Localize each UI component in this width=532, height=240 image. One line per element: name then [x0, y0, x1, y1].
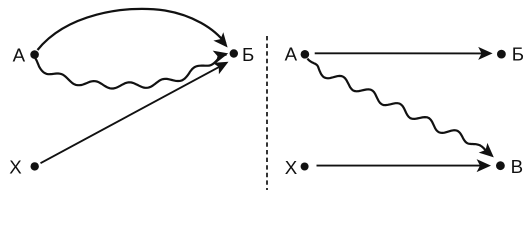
svg-text:Б: Б [512, 43, 524, 64]
svg-text:Б: Б [242, 44, 254, 65]
svg-text:В: В [511, 156, 523, 177]
svg-text:Х: Х [9, 156, 22, 177]
svg-text:Х: Х [285, 157, 298, 178]
svg-text:А: А [285, 44, 298, 65]
svg-text:А: А [13, 45, 26, 66]
